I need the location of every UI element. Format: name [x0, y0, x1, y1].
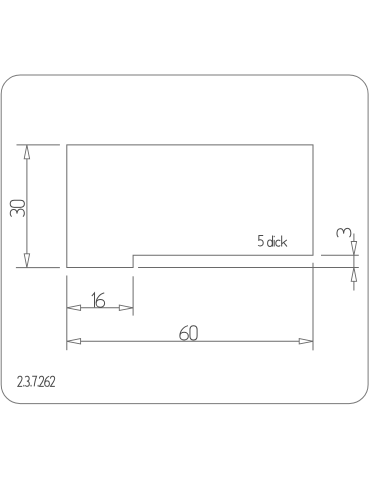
dimension text 60	[180, 326, 197, 340]
arrowhead 3 dim pointing down	[351, 242, 356, 256]
dimension line 30	[26, 145, 28, 267]
drawing sheet frame (rounded border)	[1, 75, 368, 404]
arrowhead 3 dim pointing up	[351, 268, 356, 282]
extension line right of 16 dim	[132, 276, 134, 315]
catalog number 2.3.7.262	[18, 376, 55, 386]
extension line left of 16/60 dims	[66, 276, 68, 351]
extension line top of 30 dim	[17, 144, 60, 146]
extension line bottom of 3 dim	[138, 267, 359, 269]
dimension text 3	[337, 228, 351, 237]
arrowhead 60 dim left	[67, 339, 81, 344]
dimension text 30	[10, 200, 24, 216]
arrowhead 30 dim down	[24, 254, 29, 268]
part outline: 60x30 profile with 3-deep rebate	[67, 145, 313, 268]
arrowhead 16 dim left	[67, 305, 81, 310]
dimension line 60	[67, 340, 312, 342]
extension line right of 60 dim	[312, 263, 314, 351]
arrowhead 16 dim right	[119, 305, 133, 310]
dimension line 16	[67, 307, 133, 309]
extension line top of 3 dim	[321, 254, 359, 256]
arrowhead 30 dim up	[24, 145, 29, 159]
label 5 dick (thickness note)	[258, 236, 287, 247]
dimension text 16	[92, 293, 105, 307]
arrowhead 60 dim right	[299, 339, 313, 344]
dimension line 3	[353, 234, 355, 291]
extension line bottom of 30 dim	[16, 267, 60, 269]
